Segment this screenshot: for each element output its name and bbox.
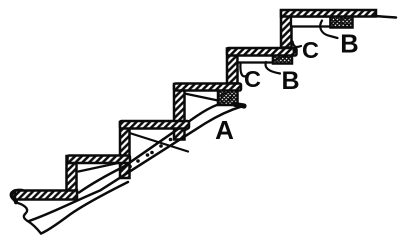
svg-text:C: C [244, 66, 261, 92]
svg-text:C: C [302, 37, 319, 63]
svg-text:B: B [281, 67, 299, 95]
svg-text:B: B [340, 31, 358, 59]
svg-text:A: A [215, 115, 234, 145]
